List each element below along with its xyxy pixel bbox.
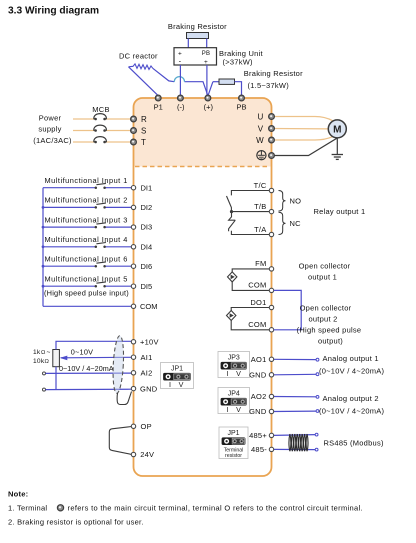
svg-text:PB: PB — [236, 103, 246, 112]
terminal (-) (main circuit) — [178, 95, 184, 101]
DI input bus (left vertical) — [42, 188, 44, 307]
svg-text:NO: NO — [290, 197, 302, 206]
brace NC — [279, 212, 286, 234]
svg-text:(0~10V / 4~20mA): (0~10V / 4~20mA) — [319, 367, 385, 376]
relay contact blade NO — [227, 196, 232, 212]
terminal COM1 (control circuit) — [269, 288, 273, 292]
svg-text:Note:: Note: — [8, 490, 28, 499]
svg-text:0~10V: 0~10V — [71, 348, 94, 357]
terminal OP (control circuit) — [131, 424, 135, 428]
wire T/A internal — [231, 231, 269, 235]
svg-text:Braking Resistor: Braking Resistor — [244, 69, 303, 78]
wire pot bottom to GND line — [55, 367, 57, 390]
svg-text:GND: GND — [249, 370, 267, 379]
svg-text:(1AC/3AC): (1AC/3AC) — [33, 136, 72, 145]
svg-text:output): output) — [318, 337, 343, 346]
wire braking resistor right lead — [206, 39, 208, 48]
wire COM input — [43, 305, 131, 307]
wire power line T — [73, 141, 96, 143]
terminal DI2 (control circuit) — [131, 205, 135, 209]
svg-text:AI1: AI1 — [141, 353, 153, 362]
svg-text:DI5: DI5 — [141, 282, 153, 291]
wire AI2 input — [43, 372, 132, 375]
svg-text:V: V — [258, 125, 264, 134]
terminal GND2 (control circuit) — [269, 409, 273, 413]
terminal AO2 (control circuit) — [269, 394, 273, 398]
terminal AI1 (control circuit) — [131, 355, 135, 359]
terminal COM2 (control circuit) — [269, 328, 273, 332]
svg-text:GND: GND — [249, 407, 267, 416]
DC reactor coil (zigzag) — [129, 64, 153, 70]
junction node on DI bus — [42, 206, 45, 209]
wire AO2-GND — [274, 410, 319, 413]
svg-text:I: I — [169, 380, 171, 389]
svg-text:Multifunctional Input 2: Multifunctional Input 2 — [45, 196, 128, 205]
wire FM internal loop — [232, 269, 269, 291]
shield drain wire to GND — [117, 392, 131, 405]
wire AO1-GND — [274, 373, 319, 376]
wire hop arc over (-) lead — [174, 77, 184, 82]
svg-text:P1: P1 — [154, 103, 163, 112]
wire AO2 — [274, 396, 319, 399]
shielded cable ellipse — [112, 335, 125, 393]
PE terminal symbol inside block — [257, 151, 266, 160]
wire U to motor — [274, 117, 333, 121]
wire braking unit - to (-) terminal — [179, 65, 181, 95]
terminal P1 (main circuit) — [155, 95, 161, 101]
switch on DI5 — [95, 282, 106, 288]
terminal GND1 (control circuit) — [269, 373, 273, 377]
earth ground symbol — [332, 155, 343, 160]
svg-text:485+: 485+ — [249, 431, 267, 440]
wire PE to motor frame — [274, 138, 337, 156]
svg-text:output 2: output 2 — [308, 315, 337, 324]
wire T/C internal — [231, 191, 269, 196]
wire power line R — [73, 118, 96, 120]
svg-text:Open collector: Open collector — [299, 262, 351, 271]
wiper arrow to AI1 — [60, 356, 132, 361]
wire DI5 input — [43, 285, 96, 287]
wire external COM link — [274, 290, 302, 329]
junction node on DI bus — [42, 245, 45, 248]
braking resistor (top) body — [187, 33, 209, 39]
wire OP-24V link — [109, 427, 131, 455]
terminal W (main circuit) — [269, 137, 275, 143]
terminal DO1 (control circuit) — [269, 305, 273, 309]
terminal S (main circuit) — [131, 128, 137, 134]
svg-text:S: S — [141, 127, 147, 136]
svg-text:JP4: JP4 — [228, 391, 240, 398]
wire 485- — [274, 448, 318, 451]
svg-text:V: V — [236, 369, 241, 378]
RS485 twisted pair coil — [289, 434, 308, 451]
svg-text:W: W — [256, 136, 264, 145]
svg-text:Power: Power — [39, 114, 62, 123]
wire 485+ — [274, 433, 318, 436]
svg-text:Multifunctional Input 6: Multifunctional Input 6 — [45, 254, 128, 263]
note inline main terminal symbol — [57, 505, 63, 511]
svg-text:V: V — [236, 405, 241, 414]
svg-text:AO2: AO2 — [251, 392, 267, 401]
svg-text:1. Terminal: 1. Terminal — [8, 504, 47, 513]
svg-text:Relay output 1: Relay output 1 — [314, 207, 366, 216]
svg-text:DI1: DI1 — [141, 183, 153, 192]
svg-text:JP1: JP1 — [227, 430, 239, 437]
braking resistor (1.5~37kW) right lead to PB — [235, 82, 242, 95]
junction node T/B — [230, 210, 233, 213]
svg-text:NC: NC — [290, 219, 302, 228]
terminal AI2 (control circuit) — [131, 371, 135, 375]
svg-text:AI2: AI2 — [141, 369, 153, 378]
MCB breaker pole R — [94, 114, 107, 121]
wire DI6 input — [43, 265, 96, 267]
svg-text:GND: GND — [140, 385, 158, 394]
terminal PB (main circuit) — [239, 95, 245, 101]
wire V to motor — [274, 128, 328, 130]
svg-text:PB: PB — [202, 51, 211, 57]
svg-text:Multifunctional Input 3: Multifunctional Input 3 — [45, 215, 128, 224]
switch on DI4 — [95, 243, 106, 249]
brace NO — [279, 191, 286, 212]
terminal DI4 (control circuit) — [131, 245, 135, 249]
svg-text:DC reactor: DC reactor — [119, 51, 158, 60]
svg-text:T: T — [141, 138, 146, 147]
svg-text:I: I — [227, 405, 229, 414]
wire DO1 internal loop — [231, 308, 269, 330]
svg-text:DI6: DI6 — [141, 262, 153, 271]
terminal COM (control circuit) — [131, 304, 135, 308]
svg-text:Analog output 1: Analog output 1 — [323, 354, 379, 363]
svg-text:Analog output 2: Analog output 2 — [323, 394, 379, 403]
jumper JP1 box — [219, 427, 248, 459]
terminal DI5 (control circuit) — [131, 284, 135, 288]
svg-text:output 1: output 1 — [308, 273, 337, 282]
svg-text:10k: 10k — [33, 358, 45, 365]
switch on DI3 — [95, 223, 106, 229]
svg-text:DI4: DI4 — [141, 242, 153, 251]
terminal U (main circuit) — [269, 114, 275, 120]
svg-text:(High speed pulse: (High speed pulse — [297, 326, 362, 335]
svg-text:Ω: Ω — [41, 350, 46, 356]
svg-text:RS485 (Modbus): RS485 (Modbus) — [324, 439, 384, 448]
svg-text:(-): (-) — [177, 103, 185, 112]
svg-text:DI3: DI3 — [141, 223, 153, 232]
svg-text:V: V — [179, 380, 184, 389]
junction node on DI bus — [42, 265, 45, 268]
terminal T/B (control circuit) — [269, 209, 273, 213]
terminal 24V (control circuit) — [131, 452, 135, 456]
terminal PE (main circuit) — [269, 153, 275, 159]
open collector device FM (diamond) — [228, 272, 237, 282]
wire power line S — [73, 130, 96, 132]
motor M — [328, 120, 346, 138]
svg-text:(High speed pulse input): (High speed pulse input) — [44, 288, 129, 297]
relay contact blade NC — [229, 212, 236, 232]
MCB breaker pole S — [94, 125, 107, 132]
svg-text:T/B: T/B — [254, 202, 266, 211]
wire pot top to +10V — [56, 341, 131, 349]
wire T/B internal — [232, 211, 270, 213]
terminal T/A (control circuit) — [269, 232, 273, 236]
wire DI2 input — [43, 206, 96, 208]
wire DC reactor to (+) with hop — [153, 68, 175, 81]
svg-text:Ω: Ω — [45, 359, 50, 365]
MCB breaker pole T — [94, 137, 107, 144]
svg-text:+10V: +10V — [140, 338, 159, 347]
svg-text:(>37kW): (>37kW) — [223, 58, 254, 67]
braking resistor (1.5~37kW) left lead — [213, 81, 219, 83]
terminal R (main circuit) — [131, 116, 137, 122]
svg-text:COM: COM — [248, 320, 266, 329]
jumper JP3 box — [218, 352, 250, 378]
terminal DI3 (control circuit) — [131, 225, 135, 229]
terminal GND (control circuit) — [131, 386, 135, 390]
wire DI4 input — [43, 246, 96, 248]
svg-text:+: + — [204, 59, 208, 66]
terminal (+) (main circuit) — [205, 95, 211, 101]
terminal DI6 (control circuit) — [131, 264, 135, 268]
svg-text:OP: OP — [141, 422, 152, 431]
wire braking resistor left lead — [187, 39, 189, 48]
svg-text:Open collector: Open collector — [300, 304, 352, 313]
svg-text:T/C: T/C — [254, 181, 267, 190]
wire DC reactor to P1 — [129, 67, 158, 96]
switch on DI1 — [95, 183, 106, 189]
braking unit box — [174, 48, 217, 65]
svg-text:I: I — [227, 369, 229, 378]
svg-text:DO1: DO1 — [250, 298, 266, 307]
terminal 485+ (control circuit) — [269, 433, 273, 437]
svg-text:Multifunctional Input 1: Multifunctional Input 1 — [45, 176, 128, 185]
svg-text:Multifunctional Input 5: Multifunctional Input 5 — [45, 274, 128, 283]
svg-text:0~10V / 4~20mA: 0~10V / 4~20mA — [59, 364, 114, 373]
terminal AO1 (control circuit) — [269, 357, 273, 361]
terminal T (main circuit) — [131, 139, 137, 145]
junction node on DI bus — [42, 285, 45, 288]
wire W to motor — [274, 137, 333, 140]
terminal V (main circuit) — [269, 126, 275, 132]
inverter block outline — [134, 98, 272, 476]
junction node on DI bus — [42, 226, 45, 229]
svg-text:refers to the main circuit ter: refers to the main circuit terminal, ter… — [68, 504, 363, 513]
svg-text:485-: 485- — [251, 445, 267, 454]
svg-text:-: - — [179, 57, 182, 66]
svg-text:resistor: resistor — [225, 453, 242, 459]
svg-text:2. Braking resistor is optiona: 2. Braking resistor is optional for user… — [8, 518, 144, 527]
jumper JP4 box — [218, 388, 250, 414]
dashed separator between main and control circuit — [135, 166, 270, 168]
svg-text:COM: COM — [140, 302, 158, 311]
wire AO1 — [274, 358, 319, 361]
svg-text:3.3 Wiring diagram: 3.3 Wiring diagram — [8, 5, 99, 16]
svg-text:(0~10V / 4~20mA): (0~10V / 4~20mA) — [319, 407, 385, 416]
svg-text:JP1: JP1 — [171, 366, 183, 373]
svg-text:Multifunctional Input 4: Multifunctional Input 4 — [45, 235, 128, 244]
svg-text:FM: FM — [255, 259, 266, 268]
svg-text:T/A: T/A — [254, 225, 266, 234]
wire DI1 input — [43, 187, 96, 189]
wire GND input — [43, 388, 132, 391]
svg-text:supply: supply — [38, 125, 61, 134]
terminal DI1 (control circuit) — [131, 186, 135, 190]
svg-text:COM: COM — [248, 281, 266, 290]
terminal T/C (control circuit) — [269, 188, 273, 192]
svg-text:24V: 24V — [140, 450, 154, 459]
terminal +10V (control circuit) — [131, 340, 135, 344]
svg-text:M: M — [333, 125, 341, 136]
svg-text:(+): (+) — [204, 103, 214, 112]
braking resistor (1.5~37kW) body — [219, 79, 235, 84]
svg-text:AO1: AO1 — [251, 355, 267, 364]
svg-text:JP3: JP3 — [228, 355, 240, 362]
potentiometer body — [53, 350, 60, 367]
svg-text:DI2: DI2 — [141, 203, 153, 212]
svg-text:(1.5~37kW): (1.5~37kW) — [248, 81, 290, 90]
svg-text:~: ~ — [47, 349, 51, 356]
svg-text:Braking Resistor: Braking Resistor — [168, 22, 227, 31]
wire braking unit + to (+) terminal — [206, 65, 208, 95]
svg-text:1k: 1k — [33, 349, 41, 356]
terminal 485- (control circuit) — [269, 447, 273, 451]
svg-text:R: R — [141, 115, 147, 124]
svg-text:U: U — [257, 113, 263, 122]
jumper JP1 box — [161, 363, 194, 389]
switch on DI2 — [95, 203, 106, 209]
svg-text:MCB: MCB — [92, 105, 109, 114]
switch on DI6 — [95, 262, 106, 268]
terminal FM (control circuit) — [269, 267, 273, 271]
open collector device DO1 (diamond) — [227, 311, 236, 321]
wire DI3 input — [43, 226, 96, 228]
